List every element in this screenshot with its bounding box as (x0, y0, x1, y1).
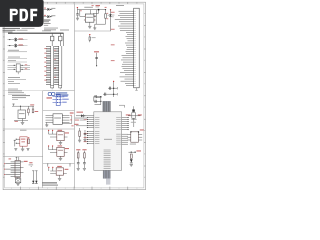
ground USB circuit (21, 119, 25, 125)
wire cluster lower left (8, 83, 26, 94)
resistor R1 (105, 10, 111, 25)
net labels U1 left pins (84, 119, 87, 142)
net label X1 (74, 124, 78, 125)
net label rail left (80, 10, 83, 11)
block divider vertical center (74, 4, 76, 188)
net label row y78 (8, 77, 27, 82)
wire to U1 left (76, 115, 94, 117)
net label DTR (77, 112, 84, 113)
wire feedback loop (93, 16, 105, 28)
wire below connector J3 (135, 88, 137, 90)
crystal Y3 with load caps (8, 64, 31, 74)
wire T2 down (131, 118, 136, 127)
resonator Q1 box (127, 129, 144, 144)
ground capacitor C6 (76, 17, 79, 19)
Arduino logo (48, 92, 68, 97)
transistor network T1 (96, 81, 117, 98)
voltage regulator IC U5 (80, 7, 97, 22)
level shifter IC U3 (46, 112, 74, 126)
microcontroller U1 body (94, 112, 122, 171)
label above bus (42, 29, 51, 32)
varistor Z1 (32, 171, 34, 184)
net label row y52 (8, 50, 28, 52)
op-amp circuit B (48, 145, 69, 158)
diode bridge box (15, 178, 20, 183)
connector J3 net labels (111, 12, 115, 61)
PDF badge (0, 0, 44, 27)
wire U1 top right (119, 105, 125, 107)
decoupling chain 1 (76, 149, 80, 168)
junction node on rail (93, 9, 99, 14)
block divider horizontal y90 (3, 90, 74, 92)
crystal load capacitors Y2 (94, 95, 102, 105)
transistor T2 (126, 106, 142, 120)
net label table rows (3, 20, 70, 33)
diode row D2 right of badge (44, 15, 56, 18)
ground level shifter (45, 122, 48, 126)
op-amp circuit A (48, 130, 69, 143)
wire stub into cell C right (70, 163, 71, 166)
resistor R10 pullup (89, 34, 96, 42)
ground op-amp B (59, 157, 62, 159)
net labels under wire (75, 118, 88, 121)
ground chain 1 (77, 167, 80, 169)
ground C5 (83, 139, 86, 141)
USB circuit (12, 104, 38, 122)
wire bus to header J2 (63, 33, 65, 46)
ground feedback (93, 27, 96, 29)
power jack X1 red outline (14, 130, 30, 149)
wire to U1 left lower (76, 125, 94, 127)
ground connector J4 (16, 183, 20, 185)
varistor Z2 (35, 171, 37, 184)
net label +5V (96, 5, 101, 7)
net label VIN (77, 7, 78, 10)
pin header labels (44, 48, 56, 80)
ground op-amp C (58, 178, 61, 180)
net label row y60 (8, 60, 28, 62)
label USB interface (12, 95, 30, 100)
capacitor C5 (84, 130, 86, 139)
wire stub into cell C left (47, 163, 48, 166)
block divider horizontal y129 (3, 128, 74, 130)
net node RESET (94, 51, 99, 66)
label regulator top red (92, 4, 94, 7)
block divider horizontal y110 right (43, 110, 75, 112)
diode D4 (81, 114, 85, 117)
microcontroller U1 left pins group B (87, 131, 94, 144)
net label J4 aux (29, 162, 33, 167)
ICSP header blue (47, 94, 69, 105)
block divider horizontal y163 right (43, 163, 75, 165)
wire regulator input rail (77, 9, 106, 11)
label MADE IN text (42, 182, 58, 186)
ground chain 2 (83, 167, 86, 169)
net label row y57 (8, 57, 28, 59)
pin header J2 (54, 33, 62, 89)
microcontroller U1 right pins group B (122, 134, 128, 144)
ground R3 (78, 139, 81, 141)
ground op-amp A (59, 142, 62, 144)
decoupling chain 2 (82, 149, 86, 168)
pin header J1 (46, 33, 54, 89)
diode clamp row 2 (8, 44, 28, 48)
diode D3 vertical (109, 9, 114, 31)
ground power jack left (14, 147, 17, 149)
LED chain (129, 150, 142, 163)
connector J3 power-analog header (115, 5, 139, 88)
block divider horizontal regulator (75, 30, 112, 32)
block divider vertical left-bottom (42, 91, 44, 188)
microcontroller U1 bottom pins (103, 170, 111, 184)
capacitor C6 (76, 10, 79, 18)
diode clamp row 1 (8, 38, 28, 42)
ground power jack right (27, 147, 30, 149)
op-amp circuit C (48, 166, 68, 178)
microcontroller U1 top pins (103, 101, 111, 117)
microcontroller U1 right pins group A (122, 117, 129, 130)
connector J4 power header (4, 157, 27, 178)
ground LED chain (130, 163, 133, 165)
bus wire (8, 32, 64, 34)
microcontroller U1 left pins group A (87, 117, 94, 128)
resistor R3 (79, 128, 81, 140)
diode row D1 right of badge (44, 8, 56, 11)
net label rail end (105, 7, 107, 10)
ground power jack center (21, 148, 24, 150)
ground regulator (88, 22, 91, 28)
block divider horizontal y156 left (3, 156, 43, 158)
